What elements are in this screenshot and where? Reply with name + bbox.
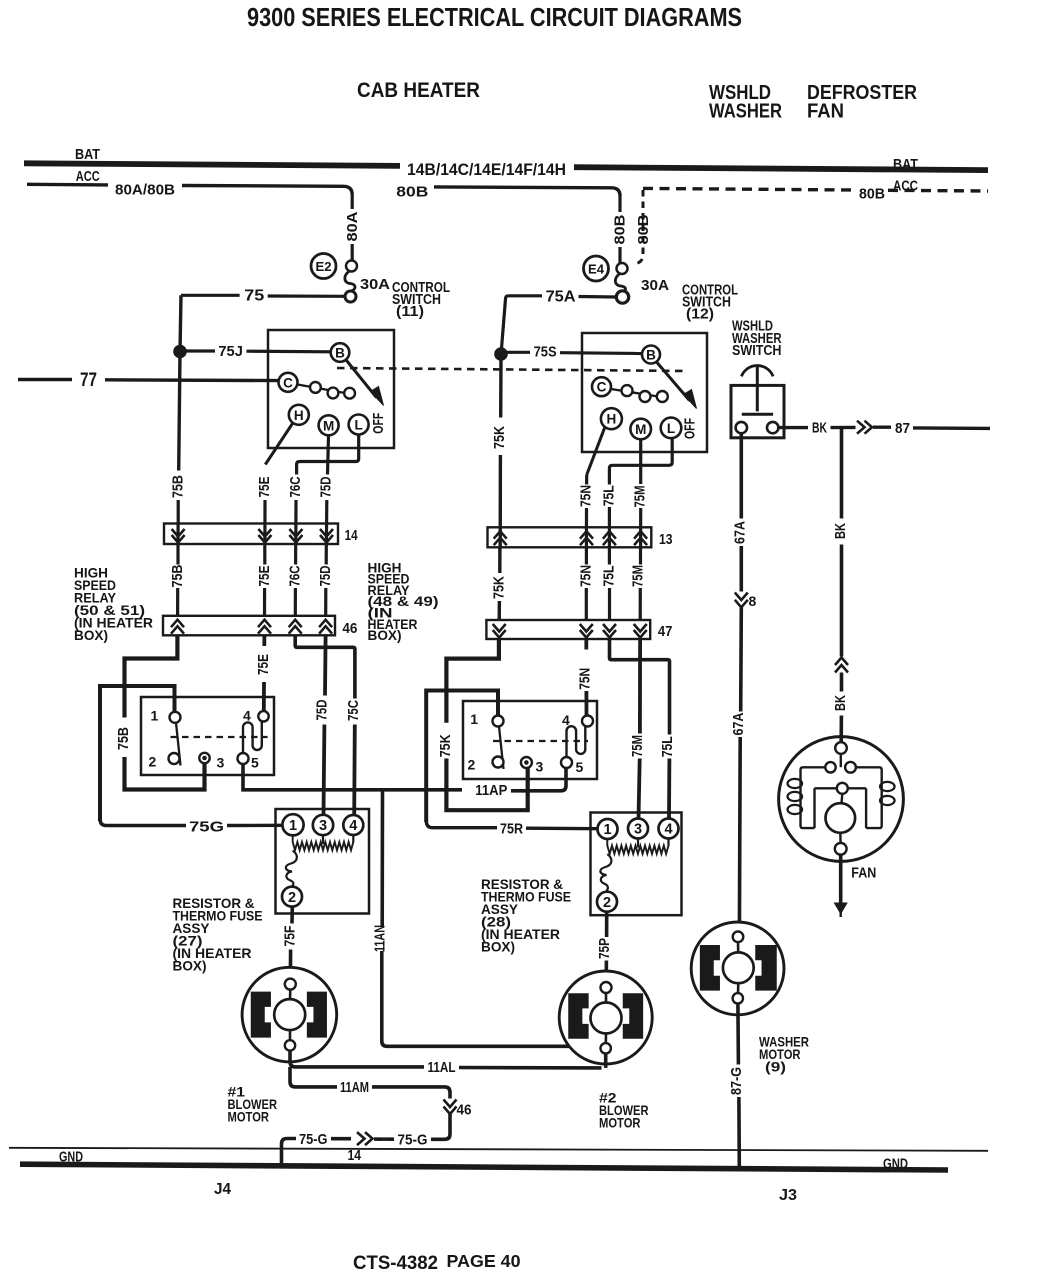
svg-text:ACC: ACC (76, 169, 100, 185)
svg-text:4: 4 (349, 818, 357, 834)
wire 75 (181, 294, 240, 297)
fuse designator circle E2 (311, 254, 336, 279)
relay K50 pin 3 (199, 753, 209, 763)
svg-text:75N: 75N (578, 565, 595, 587)
relay K48 contact blade (499, 727, 504, 770)
wire 75-G (431, 1114, 450, 1139)
fan brush circle left (825, 762, 835, 772)
R27 pin 3 (313, 815, 333, 835)
wire 75L jog below 47 (610, 639, 670, 735)
fan center terminal (837, 783, 848, 794)
svg-text:75C: 75C (345, 700, 362, 721)
svg-text:46: 46 (342, 620, 357, 637)
fan brush circle right (845, 762, 856, 773)
svg-text:C: C (597, 380, 607, 395)
svg-text:80B: 80B (612, 214, 629, 244)
wire 75E between 14 and 46 (263, 544, 266, 565)
relay K50 contact blade (176, 723, 181, 766)
svg-text:75J: 75J (218, 343, 243, 360)
svg-text:H: H (294, 408, 304, 423)
svg-text:75D: 75D (313, 699, 330, 720)
svg-text:BOX): BOX) (173, 958, 207, 974)
wire 11AM (290, 1067, 337, 1087)
svg-text:75N: 75N (578, 485, 595, 507)
svg-text:67A: 67A (730, 712, 747, 735)
relay K50 pin 2 (169, 753, 180, 764)
R28 pin 1 (598, 819, 618, 839)
svg-text:3: 3 (536, 759, 544, 775)
svg-text:CAB HEATER: CAB HEATER (357, 79, 480, 102)
defroster fan motor M housing (779, 737, 904, 862)
wire 75S feed vertical / junction (499, 351, 503, 418)
fuse E2 terminal top (346, 261, 357, 272)
wire 75A (508, 294, 542, 297)
svg-text:MOTOR: MOTOR (599, 1115, 641, 1131)
wire 75B between 14 and 46 (176, 544, 179, 565)
svg-text:67A: 67A (732, 521, 749, 544)
B2 brush right (624, 994, 643, 1038)
svg-text:14B/14C/14E/14F/14H: 14B/14C/14E/14F/14H (407, 161, 566, 179)
relay K48 coil (567, 726, 586, 757)
fan armature (826, 803, 856, 833)
fuse E2 terminal bottom (345, 291, 356, 302)
relay K50 dashed armature line (171, 736, 268, 738)
svg-text:C: C (283, 375, 293, 390)
svg-text:WASHER: WASHER (709, 99, 782, 122)
wire 77 (18, 378, 72, 381)
svg-text:J4: J4 (214, 1181, 231, 1198)
wire M to 75M (639, 439, 642, 484)
M9 terminal bottom (733, 993, 743, 1003)
svg-text:80B: 80B (859, 186, 885, 203)
fan inner frame (815, 787, 837, 789)
svg-text:75E: 75E (256, 566, 273, 587)
BAT bus (left segment) (24, 163, 400, 166)
switch 12 actuator arrow (657, 363, 690, 401)
svg-text:75A: 75A (546, 289, 576, 306)
R28 pin 3 (628, 819, 648, 839)
svg-text:FAN: FAN (807, 99, 844, 122)
washer switch stem (756, 366, 759, 411)
fuse E4 terminal top (617, 263, 628, 274)
inline connector chevron on 75-G (357, 1132, 365, 1145)
svg-text:FAN: FAN (851, 865, 876, 882)
svg-text:5: 5 (251, 755, 259, 771)
switch 11 terminal L (349, 415, 369, 435)
relay K50 pin 1 (170, 712, 181, 723)
control switch U11 box (268, 330, 394, 448)
svg-text:4: 4 (243, 708, 251, 724)
svg-text:75N: 75N (577, 668, 594, 690)
high speed relay K48/49 box (463, 701, 597, 779)
wire 87-G (736, 1004, 740, 1065)
svg-text:87-G: 87-G (728, 1067, 745, 1095)
svg-text:75L: 75L (601, 566, 618, 587)
wire 75E into connector 14 (263, 500, 266, 544)
relay K48 pin 1 (493, 716, 504, 727)
svg-text:75K: 75K (437, 734, 454, 757)
M9 brush left (701, 946, 720, 990)
svg-text:1: 1 (289, 818, 297, 834)
svg-text:B: B (335, 346, 345, 361)
inline connector 46 chevron on 11AM/75-G (444, 1100, 457, 1108)
fuse E4 terminal bottom (616, 291, 628, 303)
inline connector chevron on BK/87 (857, 421, 865, 434)
wire 75E from 46 to relay pin 4 (262, 635, 266, 646)
wire 11AN vertical (380, 790, 384, 926)
svg-text:OFF: OFF (371, 413, 387, 434)
svg-text:80A/80B: 80A/80B (115, 182, 175, 199)
svg-text:2: 2 (468, 757, 476, 773)
relay K48 dashed armature line (493, 740, 588, 742)
R28 resistor element (607, 839, 668, 854)
svg-text:3: 3 (217, 755, 225, 771)
washer motor M9 housing (691, 922, 784, 1015)
svg-text:(11): (11) (396, 304, 424, 320)
svg-text:75R: 75R (500, 821, 523, 838)
R27 pin 2 (282, 887, 302, 907)
#1 blower motor B1 (242, 967, 337, 1062)
wire 75F (290, 907, 294, 924)
svg-text:87: 87 (895, 420, 910, 437)
wire 75K below 13 (498, 547, 502, 573)
svg-text:OFF: OFF (683, 418, 699, 439)
washer switch S1 box (731, 385, 784, 437)
switch 11 wiper contacts (298, 385, 346, 394)
wire BK horizontal (779, 426, 808, 429)
fan terminal top (835, 742, 847, 754)
svg-text:11AP: 11AP (475, 782, 507, 799)
wire H to 75N (587, 427, 605, 475)
svg-text:75D: 75D (318, 476, 335, 497)
relay K48 pin 2 (493, 757, 504, 768)
svg-text:13: 13 (659, 531, 673, 548)
GND bus (20, 1164, 948, 1170)
relay K48 pin 4 (582, 716, 593, 727)
wire 75D between 14 and 46 (325, 544, 328, 565)
svg-text:75E: 75E (256, 477, 273, 498)
svg-text:76C: 76C (287, 565, 304, 586)
svg-text:75G: 75G (189, 819, 224, 836)
svg-text:75P: 75P (596, 938, 613, 959)
R28 pin 4 (659, 819, 679, 839)
washer switch terminal left (736, 422, 747, 433)
svg-text:75F: 75F (282, 926, 299, 947)
svg-text:M: M (323, 418, 334, 433)
svg-text:1: 1 (151, 708, 159, 724)
svg-text:BAT: BAT (75, 147, 100, 163)
connector 46 (163, 616, 335, 636)
switch 12 terminal C (592, 377, 611, 396)
svg-text:1: 1 (603, 822, 611, 838)
wire 75S (507, 351, 530, 354)
svg-text:BAT: BAT (893, 157, 918, 173)
ACC dashed extension right (643, 188, 855, 190)
wire 75R from relay pin 1 (426, 691, 498, 823)
svg-text:75B: 75B (169, 475, 186, 498)
switch 12 wiper contacts (611, 389, 658, 397)
wire 75K jog from 47 down to relay pin 3 (446, 639, 499, 723)
wire 76C into connector 14 (294, 500, 297, 544)
svg-text:80A: 80A (344, 211, 361, 241)
svg-text:11AL: 11AL (428, 1059, 456, 1076)
washer switch knob arc (741, 366, 773, 377)
ACC bus (left segments) (27, 183, 108, 187)
switch 11 terminal H (289, 405, 309, 425)
switch 12 terminal M (630, 419, 651, 440)
svg-text:14: 14 (348, 1148, 362, 1164)
washer switch contact bar (742, 413, 773, 416)
wire 11AP (relay K50 pin5 to relay K48 pin5) (243, 764, 462, 790)
washer switch terminal right (767, 422, 778, 433)
#2 blower motor B2 (559, 971, 652, 1064)
svg-text:2: 2 (603, 895, 611, 911)
svg-text:2: 2 (149, 754, 157, 770)
svg-text:76C: 76C (287, 476, 304, 497)
svg-text:BK: BK (812, 420, 827, 437)
fan terminal bottom (835, 843, 847, 855)
wire 75D from 46 down to resistor pin 3 (323, 635, 327, 695)
svg-text:80B: 80B (396, 184, 428, 201)
R27 resistor element (293, 835, 354, 850)
R28 pin 2 (597, 892, 617, 912)
svg-text:75S: 75S (534, 344, 557, 361)
switch 12 terminal H (601, 408, 622, 429)
wire 80B dashed vertical with hook (634, 190, 643, 264)
svg-text:3: 3 (634, 822, 642, 838)
wire 75M above 13 (639, 508, 642, 547)
svg-text:30A: 30A (360, 276, 390, 293)
high speed relay K50/51 box (141, 697, 274, 775)
B1 brush left (252, 992, 271, 1037)
svg-text:30A: 30A (641, 277, 669, 294)
svg-text:75L: 75L (659, 736, 676, 757)
wire M to 75D (328, 436, 329, 475)
wire 75L above 13 (608, 507, 611, 547)
wire 80B solid vertical (618, 196, 621, 212)
svg-text:80B: 80B (635, 214, 652, 244)
junction dot 75S/75K (495, 348, 507, 360)
relay K48 pin 3 (521, 757, 532, 768)
connector 14 (164, 524, 338, 545)
svg-text:GND: GND (883, 1157, 908, 1173)
connector 47 (486, 620, 650, 639)
mechanical linkage dashed line (337, 368, 688, 371)
resistor assy R27 box (276, 809, 370, 914)
R28 thermo fuse element (600, 854, 611, 891)
svg-text:75D: 75D (317, 565, 334, 586)
svg-text:E2: E2 (316, 259, 332, 274)
wire 75A corner down to junction (501, 296, 508, 351)
svg-text:75M: 75M (630, 565, 647, 587)
resistor assy R28 box (591, 813, 682, 916)
fuse designator circle E4 (584, 256, 609, 281)
svg-text:75-G: 75-G (398, 1132, 428, 1149)
svg-text:77: 77 (80, 370, 97, 391)
svg-text:SWITCH: SWITCH (732, 343, 782, 359)
wire 75B into connector 14 (177, 500, 180, 524)
svg-text:L: L (667, 421, 675, 436)
B2 brush left (569, 994, 588, 1038)
fan field winding left (801, 767, 826, 828)
B2 terminal bottom (601, 1043, 611, 1053)
svg-text:47: 47 (658, 623, 673, 640)
junction dot 75J/75B (174, 346, 186, 358)
svg-text:5: 5 (576, 759, 584, 775)
svg-text:M: M (635, 422, 646, 437)
wire 76C between 14 and 46 (294, 544, 297, 565)
svg-text:CTS-4382: CTS-4382 (353, 1253, 438, 1274)
wire 75D into connector 14 (325, 500, 329, 544)
wire L to 75L (609, 438, 672, 484)
svg-text:E4: E4 (588, 262, 605, 277)
connector 13 (488, 527, 652, 547)
wire 75N below 13 (585, 547, 588, 564)
control switch U12 box (582, 333, 707, 452)
B1 brush right (308, 992, 327, 1037)
svg-text:GND: GND (59, 1150, 83, 1166)
B2 armature (591, 1003, 622, 1034)
inline connector chevron on BK vertical (835, 658, 848, 666)
wire 75G from relay pin 1 (100, 686, 175, 821)
wire L to 76C (297, 435, 359, 475)
svg-text:11AM: 11AM (340, 1079, 369, 1096)
B1 armature (274, 999, 305, 1030)
R27 pin 4 (343, 815, 363, 835)
fuse E4 element (615, 274, 625, 293)
svg-text:75M: 75M (632, 486, 649, 508)
R27 thermo fuse element (286, 851, 297, 887)
B1 terminal bottom (285, 1040, 295, 1050)
ACC dashed segment far right (888, 189, 988, 193)
svg-text:H: H (607, 412, 617, 427)
svg-text:14: 14 (345, 527, 359, 544)
switch 11 terminal M (319, 415, 339, 435)
wire H to 75E (265, 424, 292, 465)
svg-text:BK: BK (832, 523, 849, 539)
M9 brush right (756, 946, 776, 990)
B1 terminal top (285, 979, 296, 990)
relay K50 coil (243, 721, 262, 753)
fuse E2 element (345, 271, 355, 291)
fan field winding right (856, 767, 882, 828)
svg-text:4: 4 (664, 822, 672, 838)
wire 75B upper vertical (179, 295, 181, 470)
svg-text:MOTOR: MOTOR (228, 1109, 270, 1125)
svg-text:J3: J3 (779, 1187, 797, 1204)
wire 75N from 47 to relay pin 4 (584, 639, 588, 650)
M9 armature (723, 952, 754, 983)
wire 75M from 47 down to resistor pin 3 (638, 639, 642, 734)
switch 11 terminal B (331, 343, 350, 362)
svg-text:8: 8 (749, 593, 757, 609)
wire 11AL (290, 1051, 424, 1067)
svg-text:BOX): BOX) (481, 938, 515, 954)
svg-text:B: B (646, 348, 656, 363)
svg-text:75L: 75L (601, 485, 618, 506)
svg-text:PAGE 40: PAGE 40 (447, 1251, 521, 1271)
svg-text:75B: 75B (169, 564, 186, 587)
relay K48 pin 5 (561, 757, 572, 768)
BAT bus (right segment) (574, 167, 988, 170)
wire 80A vertical (351, 195, 354, 209)
R27 pin 1 (282, 814, 303, 835)
wire 75B jog from 46 down to relay pin 3 (125, 635, 178, 717)
svg-text:(12): (12) (686, 307, 714, 323)
svg-text:75E: 75E (255, 654, 272, 675)
wire 76C to 75C jog below 46 (295, 635, 355, 698)
svg-text:75M: 75M (629, 735, 646, 757)
svg-text:2: 2 (288, 890, 296, 906)
svg-text:75: 75 (244, 288, 264, 305)
svg-text:1: 1 (470, 711, 478, 727)
wire BK vertical (840, 428, 844, 519)
relay K50 pin 5 (238, 753, 249, 764)
svg-text:11AN: 11AN (371, 925, 388, 952)
inline connector 8 chevron on 67A (735, 593, 748, 601)
frame line above GND bus (9, 1148, 988, 1151)
ACC bus segment to corner above fuse E4 (434, 187, 620, 196)
switch 11 actuator arrow (347, 361, 377, 398)
wire 75N above 13 (585, 475, 588, 485)
svg-text:BOX): BOX) (368, 627, 402, 643)
wire 75J (186, 349, 215, 352)
fan ground wire (839, 855, 843, 903)
M9 terminal top (733, 932, 744, 943)
wire 75P (605, 912, 609, 937)
svg-text:L: L (354, 418, 362, 433)
switch 11 terminal C (279, 373, 298, 392)
svg-text:BOX): BOX) (74, 627, 108, 643)
wire 75L below 13 (608, 547, 611, 564)
svg-text:9300 SERIES ELECTRICAL CIRCUIT: 9300 SERIES ELECTRICAL CIRCUIT DIAGRAMS (247, 2, 742, 32)
ACC bus middle segment with corner to fuse E2 (182, 186, 352, 196)
svg-text:46: 46 (457, 1102, 472, 1119)
switch 12 terminal B (642, 346, 660, 364)
svg-text:75K: 75K (490, 576, 507, 599)
svg-text:BK: BK (832, 695, 849, 711)
relay K50 pin 4 (258, 711, 268, 721)
switch 12 terminal L (661, 418, 682, 439)
svg-text:75B: 75B (115, 727, 132, 750)
svg-text:3: 3 (319, 818, 327, 834)
svg-text:75K: 75K (491, 426, 508, 449)
ground symbol (fan) (834, 903, 848, 915)
svg-text:(9): (9) (765, 1059, 786, 1075)
svg-text:75-G: 75-G (299, 1131, 328, 1148)
B2 terminal top (601, 982, 612, 993)
wire 67A (739, 433, 743, 518)
wire 75M below 13 (639, 547, 642, 564)
